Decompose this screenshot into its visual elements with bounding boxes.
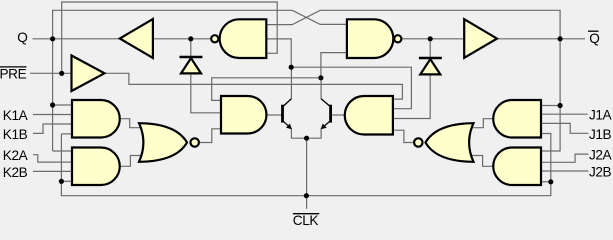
node dot M1 collector bbox=[289, 65, 294, 70]
wire diode2 stem bbox=[429, 39, 431, 58]
transistor Q1 bbox=[283, 99, 292, 129]
wire J2 out to NOR2 bbox=[470, 156, 493, 167]
svg-text:Q: Q bbox=[17, 30, 27, 45]
wire Q-bar to J2 in1 bbox=[541, 39, 560, 151]
wire K2 out to NOR1 bbox=[120, 156, 143, 167]
svg-text:K2A: K2A bbox=[3, 148, 29, 163]
wire net M1: NAND1 in2 to rail to master-R input bbox=[267, 39, 411, 109]
and K2 gate bbox=[72, 148, 120, 186]
wire master-R out to Q2 base bbox=[331, 114, 345, 116]
transistor Q2 bbox=[321, 99, 331, 129]
wire CLK stub bbox=[306, 138, 308, 209]
svg-text:Q: Q bbox=[589, 31, 599, 46]
node dot K1 in1 bbox=[50, 102, 55, 107]
and J2 gate (mirrored) bbox=[493, 148, 541, 186]
node dot Qbar tee bbox=[558, 36, 563, 41]
wire crossing B bbox=[267, 10, 560, 39]
wire Q2 collector bbox=[321, 78, 331, 107]
buffer Q (left-pointing triangle) bbox=[120, 19, 153, 58]
node dot K2 in4 bbox=[59, 179, 64, 184]
wire PRE top rail bbox=[62, 2, 278, 73]
wire K2B bbox=[33, 170, 72, 172]
wire J1 in1 bbox=[541, 105, 560, 107]
and U4 master-right (mirrored) bbox=[345, 96, 393, 135]
diode D2 bbox=[420, 59, 440, 74]
wire PRE label to buffer bbox=[30, 72, 72, 74]
and K1 gate bbox=[72, 100, 120, 138]
wire J1 out to NOR2 bbox=[470, 119, 493, 128]
arrow Q1 emitter bbox=[286, 124, 292, 130]
wire J2A bbox=[541, 154, 588, 162]
svg-text:K1A: K1A bbox=[3, 108, 29, 123]
svg-text:J1A: J1A bbox=[589, 108, 613, 123]
svg-text:J1B: J1B bbox=[589, 127, 612, 142]
svg-text:K1B: K1B bbox=[3, 127, 28, 142]
node dot J2 in4 bbox=[548, 179, 553, 184]
wire Q-bar label bbox=[398, 38, 586, 40]
node dot M2 collector bbox=[318, 75, 323, 80]
wire Q1 emitter vertical bbox=[291, 129, 306, 138]
bubble nand U1 bbox=[211, 35, 218, 42]
wire J1A bbox=[541, 113, 588, 115]
wire crossing A diagonal bbox=[292, 10, 347, 24]
nand U1 slave-left (mirrored) bbox=[220, 19, 267, 58]
buffer Q-bar (right-pointing triangle) bbox=[464, 19, 497, 58]
nor N2 J-side (mirrored) bbox=[426, 123, 474, 162]
node dot CLK rail tee bbox=[304, 193, 309, 198]
wire K1A bbox=[33, 114, 72, 116]
wire PRE buffer out rail bbox=[105, 73, 403, 99]
svg-text:CLK: CLK bbox=[293, 213, 319, 225]
wire J2 in4 bbox=[541, 181, 551, 183]
wire Q1 collector bbox=[283, 67, 292, 107]
diode D1 bbox=[181, 58, 201, 73]
nand U2 slave-right bbox=[347, 19, 393, 58]
wire K1 in1 from Q vertical bbox=[53, 104, 72, 106]
diode D2 cathode bar bbox=[419, 57, 442, 60]
buffer PRE (right-pointing triangle) bbox=[72, 56, 105, 92]
node dot D2 tee bbox=[428, 36, 433, 41]
wire NOR1 out to master-L in3 bbox=[199, 129, 221, 143]
and U3 master-left bbox=[221, 96, 266, 134]
svg-text:PRE: PRE bbox=[0, 66, 27, 81]
wire net M2: NAND2 in2 to rail to master-L input bbox=[212, 53, 347, 101]
wire NOR2 out to master-R in4 bbox=[394, 130, 415, 142]
arrow Q2 emitter bbox=[321, 124, 327, 130]
svg-text:K2B: K2B bbox=[3, 165, 28, 180]
wire Q feedback vertical x=52.6 bbox=[53, 10, 293, 151]
svg-text:J2B: J2B bbox=[589, 165, 612, 180]
node dot J1 in1 bbox=[558, 103, 563, 108]
wire Q label to NAND1 bubble bbox=[33, 38, 211, 40]
wire K1 out to NOR1 bbox=[120, 119, 143, 128]
nor N1 K-side bbox=[139, 123, 187, 162]
wire Q2 emitter vertical bbox=[307, 129, 322, 138]
wire K1B bbox=[33, 124, 72, 133]
diode D1 cathode bar bbox=[180, 56, 203, 59]
wire CLK bottom rail bbox=[61, 133, 72, 135]
wire J1B bbox=[541, 123, 588, 133]
node dot emitter junction bbox=[304, 136, 309, 141]
wire master-L out to Q1 base bbox=[267, 114, 283, 116]
bubble nor N1 bbox=[191, 138, 199, 146]
node dot D1 tee bbox=[188, 36, 193, 41]
wire diode1 stem to master-L input2 bbox=[190, 39, 192, 57]
node dot Q tee bbox=[50, 36, 55, 41]
svg-text:J2A: J2A bbox=[589, 148, 613, 163]
bubble nor N2 bbox=[414, 138, 422, 146]
wire K2 in4 bbox=[61, 180, 72, 182]
wire K2A bbox=[33, 155, 72, 162]
bubble nand U2 bbox=[394, 35, 401, 42]
wire J2B bbox=[541, 170, 588, 172]
node dot PRE tee bbox=[59, 71, 64, 76]
and J1 gate (mirrored) bbox=[493, 100, 541, 138]
wire K2 in1 from Q vertical bbox=[53, 150, 72, 152]
